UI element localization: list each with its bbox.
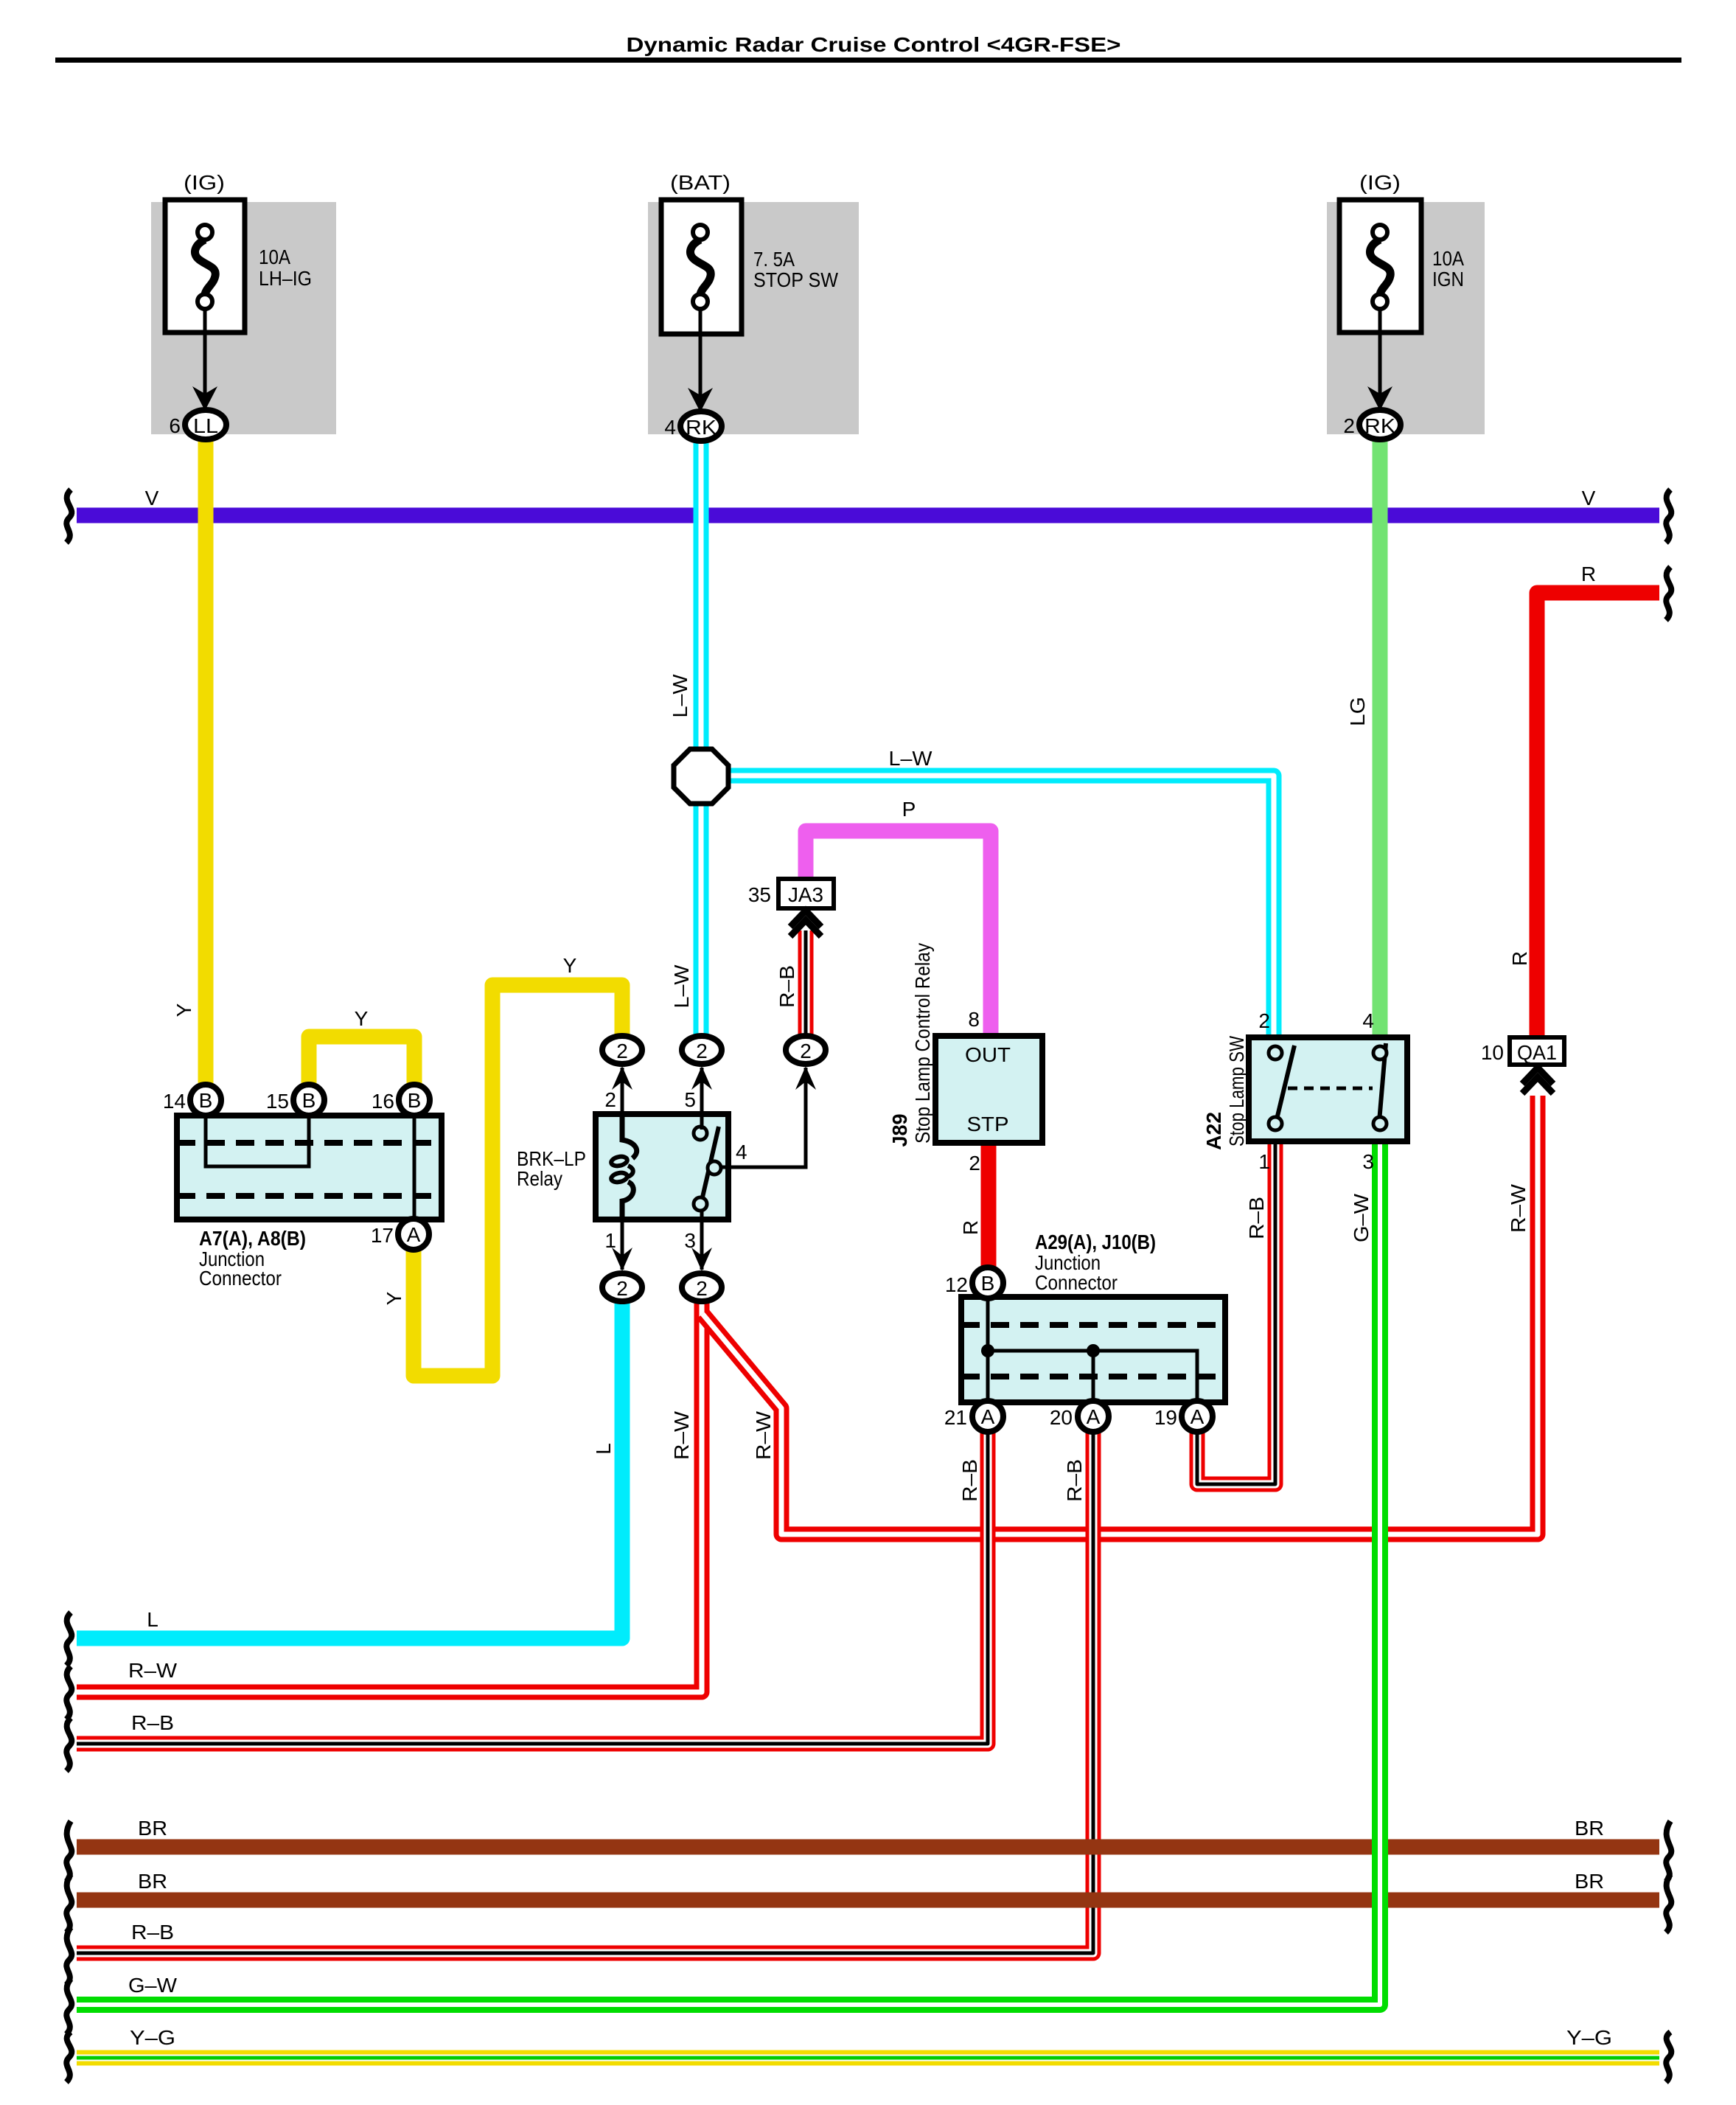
svg-text:16: 16 [372,1090,394,1113]
svg-text:19: 19 [1154,1406,1177,1429]
pin circle B 12 [972,1267,1003,1298]
connector oval LL pin 6 [185,410,226,439]
fuse 7.5A STOP SW [661,200,742,412]
svg-text:Y–G: Y–G [1566,2026,1612,2049]
svg-text:BR: BR [1575,1817,1604,1840]
svg-text:35: 35 [748,883,771,906]
svg-text:STP: STP [967,1113,1009,1135]
svg-text:A: A [1087,1405,1101,1428]
svg-text:4: 4 [736,1141,747,1163]
arrow down from relay pin 3 [691,1248,712,1271]
svg-text:5: 5 [684,1088,696,1111]
wire R-B from JA3 chevron down to relay pin-4 connector oval [798,930,814,1037]
svg-text:Y–G: Y–G [130,2026,175,2049]
svg-text:1: 1 [1258,1150,1270,1173]
octagon splice [674,749,728,804]
relay pin 1 line [621,1218,624,1270]
svg-text:Y: Y [383,1291,405,1305]
svg-text:R: R [1581,563,1596,585]
svg-text:R–W: R–W [752,1410,775,1460]
svg-text:IGN: IGN [1432,268,1464,290]
svg-text:LG: LG [1346,697,1369,726]
svg-text:12: 12 [945,1273,968,1296]
svg-text:Relay: Relay [517,1167,562,1190]
junction connector A29(A), J10(B) box [961,1297,1225,1402]
svg-text:J89: J89 [888,1114,911,1147]
chevrons below JA3 [790,911,821,936]
svg-text:G–W: G–W [128,1974,178,1997]
wire R-B U-link from A29 pin 19 to A22 pin 1 [1197,1141,1275,1484]
arrow up to oval relay pin 2 [612,1066,632,1090]
svg-text:A22: A22 [1202,1112,1225,1150]
svg-text:10A: 10A [1432,247,1464,270]
svg-text:QA1: QA1 [1517,1041,1557,1064]
pin circle A 19 [1182,1401,1213,1432]
wire R-B bus 2 from left edge to A29 pin 20 [77,1432,1093,1953]
svg-text:JA3: JA3 [788,883,823,906]
svg-text:R: R [959,1220,982,1235]
wire Y from fuse LH-IG pin 6 to A7 pin 14 [198,436,214,1088]
gray block fuse area left [151,202,336,434]
connector oval 2 below relay pin 3 [682,1273,722,1301]
svg-text:P: P [902,798,916,821]
wire R from J89 STP pin 2 to A29 pin 12 [981,1141,997,1270]
wire LG from fuse IGN pin 2 to A22 pin 4 [1373,436,1388,1037]
wire R-B bus from left edge to A29 pin 21 [77,1432,988,1744]
pin circle B 14 [190,1085,221,1116]
relay J89 Stop Lamp Control Relay box [935,1036,1042,1143]
pin circle A 20 [1078,1401,1109,1432]
svg-text:2: 2 [616,1277,628,1300]
svg-text:LH–IG: LH–IG [259,267,312,290]
svg-text:STOP SW: STOP SW [753,268,839,291]
wire L-W horizontal from octagon to A22 pin 2 [726,776,1274,1037]
svg-text:B: B [302,1089,316,1112]
relay pin 4 line to connector [721,1068,806,1167]
svg-text:Dynamic Radar Cruise Control <: Dynamic Radar Cruise Control <4GR-FSE> [627,33,1121,56]
svg-text:8: 8 [968,1008,980,1031]
relay pin 5 line [700,1068,704,1130]
break squiggles right edge [1666,490,1671,2082]
svg-text:R–B: R–B [958,1459,981,1502]
relay pin 3 line [700,1209,704,1270]
svg-text:RK: RK [686,416,717,439]
fuse 10A IGN [1339,200,1421,411]
svg-text:3: 3 [1362,1150,1374,1173]
fuse 10A LH-IG [165,200,245,411]
svg-text:10: 10 [1481,1041,1504,1064]
svg-text:(BAT): (BAT) [670,171,731,194]
svg-text:Y: Y [563,954,577,977]
svg-text:L–W: L–W [670,964,693,1009]
svg-text:2: 2 [800,1040,812,1062]
chevrons below QA1 [1522,1068,1553,1093]
svg-text:R–B: R–B [1063,1459,1086,1502]
svg-text:OUT: OUT [965,1043,1011,1066]
wire R-W branch from relay pin 3 to QA1 [703,1096,1538,1534]
svg-text:2: 2 [969,1152,980,1175]
svg-text:17: 17 [371,1224,394,1247]
svg-text:2: 2 [696,1277,708,1300]
relay switch blade [702,1127,719,1200]
relay pin 2 line [621,1068,624,1116]
pin circle A 21 [972,1401,1003,1432]
svg-text:1: 1 [604,1229,616,1252]
svg-text:6: 6 [169,414,181,437]
break squiggles left edge [66,490,72,2082]
connector oval 2 above relay pin 4 wire [786,1036,826,1064]
connector oval 2 below relay pin 1 [602,1273,642,1301]
svg-text:L: L [592,1443,615,1455]
svg-text:Connector: Connector [1035,1271,1118,1294]
svg-text:Connector: Connector [199,1267,282,1290]
svg-text:L: L [147,1608,158,1631]
wire G-W bus from left edge to A22 pin 3 [77,1141,1380,2005]
svg-text:Stop Lamp Control Relay: Stop Lamp Control Relay [911,943,934,1144]
arrow up to oval relay pin 4 [795,1066,816,1090]
svg-text:R–W: R–W [1507,1183,1530,1233]
wire L-W vertical from fuse STOP SW pin 4 through octagon splice to relay pin 5 [694,438,709,1037]
svg-text:(IG): (IG) [1359,171,1401,194]
svg-text:Y: Y [172,1003,195,1017]
connector oval 2 above relay pin 5 [682,1036,722,1064]
svg-text:4: 4 [1362,1009,1374,1032]
svg-text:A7(A), A8(B): A7(A), A8(B) [199,1227,306,1250]
svg-text:2: 2 [1258,1009,1270,1032]
svg-text:R–B: R–B [1245,1197,1268,1239]
svg-text:2: 2 [696,1040,708,1062]
title [55,33,1681,63]
svg-text:R–B: R–B [775,965,798,1008]
svg-text:7. 5A: 7. 5A [753,248,795,271]
svg-text:15: 15 [266,1090,289,1113]
svg-text:4: 4 [664,416,676,439]
wire R-W bus from left edge to relay pin 3 [77,1301,702,1692]
svg-text:R–W: R–W [128,1659,178,1682]
connector oval RK pin 2 [1359,410,1401,439]
gray block fuse area middle [648,202,859,434]
svg-text:V: V [145,487,159,509]
svg-text:A: A [407,1223,421,1246]
svg-text:V: V [1582,487,1596,509]
relay coil [622,1116,637,1158]
BRK-LP relay box [596,1068,806,1270]
svg-text:B: B [199,1089,213,1112]
svg-text:14: 14 [163,1090,186,1113]
svg-text:L–W: L–W [889,747,933,770]
svg-text:B: B [981,1272,995,1295]
svg-text:2: 2 [616,1040,628,1062]
gray block fuse area right [1327,202,1485,434]
svg-text:BR: BR [138,1817,167,1840]
wire BR bus 1 [77,1840,1659,1855]
svg-text:A: A [981,1405,995,1428]
svg-text:G–W: G–W [1350,1193,1373,1242]
svg-text:LL: LL [193,414,218,437]
arrow down from relay pin 1 [612,1248,632,1271]
wire P from JA3 to J89 OUT pin 8 [806,831,991,1037]
svg-text:R–W: R–W [670,1410,693,1460]
arrow up to oval relay pin 5 [691,1066,712,1090]
svg-text:Y: Y [355,1007,369,1030]
svg-text:21: 21 [944,1406,967,1429]
svg-text:RK: RK [1364,414,1395,437]
svg-text:10A: 10A [259,246,290,268]
svg-text:Stop Lamp SW: Stop Lamp SW [1225,1036,1248,1147]
switch A22 Stop Lamp SW box [1249,1037,1407,1141]
pin circle B 15 [293,1085,324,1116]
svg-text:R–B: R–B [131,1921,174,1944]
svg-text:B: B [408,1089,422,1112]
wire R from right edge to QA1 [1537,593,1659,1037]
svg-text:R: R [1508,951,1531,966]
connector box JA3 pin 35 [778,879,834,908]
connector oval RK pin 4 [680,411,722,441]
svg-text:2: 2 [604,1088,616,1111]
pin circle A 17 [398,1219,429,1250]
wire Y from A7 pin 17 loop to BRK-LP relay pin 2 [414,985,622,1376]
svg-text:A: A [1191,1405,1205,1428]
svg-text:(IG): (IG) [184,171,225,194]
svg-text:BR: BR [138,1870,167,1893]
svg-text:3: 3 [684,1229,696,1252]
wire Y-G bus [77,2050,1659,2066]
connector oval 2 above relay pin 2 [602,1036,642,1064]
wire L bus from left edge to relay pin 1 [77,1301,622,1638]
wire BR bus 2 [77,1893,1659,1908]
junction connector A7(A), A8(B) box [177,1116,442,1219]
svg-text:BR: BR [1575,1870,1604,1893]
pin circle B 16 [399,1085,430,1116]
svg-text:R–B: R–B [131,1711,174,1734]
wire Y hat between A7 pin 15 and pin 16 [309,1037,414,1088]
connector box QA1 pin 10 [1510,1037,1564,1065]
svg-text:2: 2 [1343,414,1355,437]
svg-text:A29(A), J10(B): A29(A), J10(B) [1035,1231,1156,1253]
svg-text:20: 20 [1050,1406,1073,1429]
wire V bus (violet) [77,508,1659,523]
svg-text:L–W: L–W [669,674,691,718]
